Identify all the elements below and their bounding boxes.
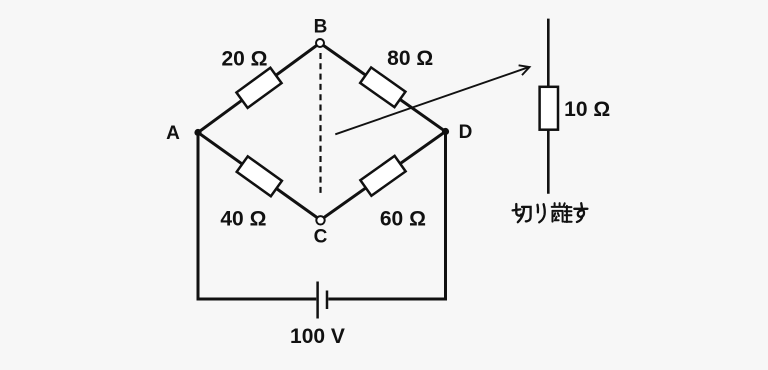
svg-text:B: B	[314, 17, 328, 38]
svg-text:80 Ω: 80 Ω	[387, 47, 433, 70]
resistor 80 ohm	[360, 67, 405, 107]
resistor 60 ohm	[360, 156, 405, 196]
resistor 10 ohm	[540, 87, 558, 130]
battery short plate	[326, 291, 329, 310]
wire B-D	[320, 43, 446, 132]
resistor 20 ohm	[236, 68, 281, 108]
node C (open terminal)	[316, 216, 324, 224]
label kiri-hanasu glyph す	[574, 203, 587, 222]
wire A to battery (left bottom)	[198, 131, 316, 299]
node B (open terminal)	[316, 39, 324, 47]
label kiri-hanasu (cut off) glyph 切	[513, 204, 531, 222]
node D (junction dot)	[442, 128, 449, 135]
node A (junction dot)	[194, 129, 201, 136]
svg-text:20 Ω: 20 Ω	[221, 48, 267, 71]
label kiri-hanasu glyph 離	[552, 203, 572, 222]
svg-text:10 Ω: 10 Ω	[564, 98, 610, 121]
wire battery to D (right bottom)	[328, 130, 445, 299]
wire C-D	[321, 132, 446, 221]
label kiri-hanasu glyph り	[538, 204, 545, 222]
svg-text:A: A	[166, 123, 180, 144]
svg-text:D: D	[459, 122, 473, 143]
battery long plate	[316, 282, 319, 319]
svg-text:C: C	[314, 227, 328, 248]
svg-text:100 V: 100 V	[290, 325, 345, 348]
svg-text:40 Ω: 40 Ω	[220, 207, 266, 230]
dashed line B-C	[319, 53, 321, 197]
svg-text:60 Ω: 60 Ω	[380, 207, 426, 230]
arrow from bridge branch to 10 ohm resistor	[335, 65, 529, 134]
wire A-B	[198, 43, 320, 133]
wire A-C	[198, 133, 321, 221]
resistor 40 ohm	[237, 156, 282, 196]
wire of 10 ohm branch	[547, 19, 550, 194]
